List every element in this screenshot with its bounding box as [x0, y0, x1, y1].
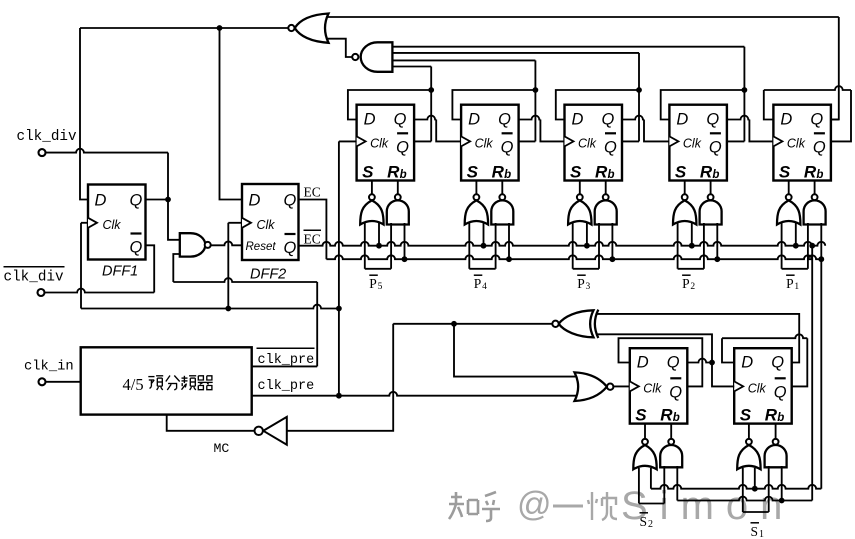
svg-text:b: b: [504, 169, 511, 181]
svg-text:Q: Q: [604, 138, 617, 156]
svg-text:S: S: [740, 406, 752, 425]
wire G3 lower input from clk_pre_bar: [173, 254, 180, 282]
wire R-gate left input to P3 staple: [598, 223, 600, 269]
NAND gate R-gate of FF6: [670, 424, 672, 440]
wire DFF1.Q down to G3 upper input: [168, 200, 180, 240]
svg-text:D: D: [468, 110, 480, 128]
wire R-gate left input to P5 staple: [390, 223, 392, 269]
svg-text:b: b: [673, 412, 680, 424]
wire S1 staple: [743, 511, 769, 513]
wire FF6 S-gate left input to S2 staple: [638, 468, 640, 504]
terminal clk_in: [39, 378, 46, 385]
junctions R-gate right inputs on EC bus: [402, 256, 408, 262]
svg-text:Q: Q: [771, 353, 784, 371]
wire FF5 feedback D=Qbar: [764, 90, 774, 120]
flip-flop FF2 (counter stage 4): [461, 105, 518, 182]
wire FF7 S-gate left input to S1 staple: [742, 468, 744, 512]
svg-text:b: b: [816, 169, 823, 181]
wire S-gate left input to P1 staple: [781, 223, 783, 269]
wire G2 output to G1 lower input: [327, 39, 352, 57]
wire P3 staple: [573, 268, 599, 270]
svg-text:P: P: [474, 276, 482, 291]
bus ECbar return: [677, 497, 812, 501]
svg-text:2: 2: [690, 282, 695, 292]
wire S-gate left input to P2 staple: [677, 223, 679, 269]
terminal clk_div_bar: [38, 289, 45, 296]
wire R-gate right input to EC bus: [508, 223, 510, 259]
wire R-gate left input to P1 staple: [807, 223, 809, 269]
wire FF6.Q down to FF7.Clk: [712, 363, 734, 387]
svg-text:S: S: [751, 524, 759, 539]
wire G2 input from FF2 feedback node: [392, 59, 535, 61]
wire MC input from G4 output net: [287, 324, 393, 431]
flip-flop FF1 (counter stage 5): [357, 105, 415, 182]
wire FF6 R-gate right input starts ECbar return bus: [676, 466, 678, 501]
NOR gate S-gate of FF1: [371, 181, 373, 195]
wire FF5.Q stub to riser: [831, 119, 839, 121]
wire FF3 feedback D=Qbar: [556, 90, 639, 120]
flip-flop FF4 (counter stage 2): [669, 105, 727, 182]
svg-text:Q: Q: [498, 110, 511, 128]
wire MC output to prescaler: [167, 415, 255, 431]
svg-text:Clk: Clk: [748, 382, 767, 396]
svg-text:S: S: [675, 163, 687, 182]
wire G3 output to DFF2.Reset: [211, 241, 242, 245]
svg-text:Q: Q: [706, 110, 719, 128]
svg-text:D: D: [741, 353, 753, 371]
junction FF3 feedback node: [636, 87, 642, 93]
wire FF6.Q stub: [687, 359, 712, 363]
wire FF1.Clk from clk_pre riser: [339, 140, 357, 142]
svg-text:DFF1: DFF1: [102, 264, 138, 280]
terminal clk_div: [39, 149, 46, 156]
junctions S-gate right inputs on ECbar bus: [376, 243, 382, 249]
svg-text:S: S: [570, 163, 582, 182]
wire FF4.Q to FF5.Clk: [727, 116, 750, 120]
inverter MC: [263, 417, 287, 445]
svg-text:R: R: [387, 163, 400, 182]
svg-text:Clk: Clk: [683, 137, 702, 151]
svg-text:Clk: Clk: [257, 218, 276, 232]
wire S-gate left input to P3 staple: [572, 223, 574, 269]
junction FF4 feedback node: [742, 87, 748, 93]
NAND gate G2 (4 inputs, output left): [361, 42, 393, 72]
NOR gate S-gate of FF6: [644, 424, 646, 440]
svg-text:P: P: [369, 276, 377, 291]
svg-text:@: @: [517, 486, 552, 524]
wire S-gate left input to P5 staple: [364, 223, 366, 269]
junction FF2 feedback node: [533, 87, 539, 93]
svg-text:P: P: [577, 276, 585, 291]
junction FF6.Q node: [709, 360, 715, 366]
svg-text:Q: Q: [669, 383, 682, 401]
svg-text:EC: EC: [304, 185, 321, 200]
wire P4 staple: [469, 268, 495, 270]
wire branch down to DFF2.D: [220, 28, 243, 200]
wire FF7 S-gate right input to EC return bus: [754, 468, 756, 489]
svg-text:D: D: [572, 110, 584, 128]
junction ECbar branch to lower section: [809, 243, 815, 249]
wire R-gate left input to P2 staple: [703, 223, 705, 269]
svg-text:S: S: [779, 163, 791, 182]
svg-text:5: 5: [378, 282, 383, 292]
flip-flop DFF1: [88, 185, 146, 260]
svg-text:D: D: [780, 110, 792, 128]
flip-flop FF6 (swallow counter): [630, 348, 688, 425]
wire S-gate right input to ECbar bus: [795, 223, 797, 246]
wire R-gate left input to P4 staple: [495, 223, 497, 269]
svg-text:R: R: [765, 406, 778, 425]
wire G1 output to DFF1.D: [80, 27, 288, 29]
svg-text:Q: Q: [130, 238, 143, 256]
svg-text:R: R: [492, 163, 505, 182]
svg-text:clk_pre: clk_pre: [258, 379, 315, 394]
bus ECbar: [299, 242, 826, 246]
svg-text:4/5: 4/5: [123, 375, 144, 394]
wire FF1 feedback D=Qbar: [348, 90, 431, 120]
svg-text:Clk: Clk: [643, 382, 662, 396]
wire FF7.Q up to G4 top input: [598, 314, 800, 363]
wire FF1.Q to FF2.Clk: [414, 116, 436, 120]
svg-text:2: 2: [648, 519, 653, 530]
svg-text:Clk: Clk: [370, 137, 389, 151]
bus EC return (to FF5 R-gate riser): [651, 485, 821, 489]
wire FF2 feedback D=Qbar: [452, 90, 535, 120]
wire G4 output down to G5 upper input: [454, 324, 578, 377]
4/5 prescaler block: [81, 347, 252, 414]
NAND gate G3 (drives DFF2.Reset): [180, 233, 206, 256]
svg-text:Reset: Reset: [246, 241, 277, 253]
wire clk_div to DFF1.Q node: [45, 149, 168, 153]
watermark zhihu @yichen Simon: [449, 492, 500, 521]
wire R-gate right input to EC bus: [716, 223, 718, 259]
junction G4 output branch: [451, 321, 457, 327]
wire FF6 S-gate right input starts EC return bus: [650, 468, 652, 489]
clk_pre bus line: [81, 305, 339, 309]
NOR gate S-gate of FF7: [748, 424, 750, 440]
svg-text:D: D: [249, 192, 261, 210]
wire clk_pre_bar output riser: [252, 365, 318, 367]
svg-text:DFF2: DFF2: [250, 267, 286, 283]
svg-text:b: b: [400, 169, 407, 181]
svg-text:clk_in: clk_in: [24, 359, 74, 375]
wire R-gate right input to EC bus: [611, 223, 613, 259]
flip-flop DFF2: [242, 184, 299, 260]
svg-text:Q: Q: [396, 138, 409, 156]
svg-text:S: S: [635, 406, 647, 425]
svg-text:P: P: [786, 276, 794, 291]
svg-text:Q: Q: [813, 138, 826, 156]
flip-flop FF5 (counter stage 1): [773, 105, 831, 182]
junction FF1 feedback node: [428, 87, 434, 93]
NOR gate G1 (output left, top of schematic): [295, 14, 329, 43]
wire G2 input from FF4 feedback node: [392, 46, 744, 48]
svg-text:D: D: [95, 192, 107, 210]
svg-text:S: S: [362, 163, 374, 182]
NAND gate R-gate of FF7: [775, 424, 777, 440]
wire FF4 feedback D=Qbar: [661, 90, 745, 120]
wire G2 input from FF1 feedback node: [392, 66, 431, 68]
NOR gate S-gate of FF3: [579, 181, 581, 195]
NAND gate R-gate of FF1: [397, 181, 399, 195]
junction clk_pre bus / FF1.Clk riser: [336, 306, 342, 312]
wire G1 top input from FF5.Q: [327, 16, 839, 18]
wire P1 staple: [782, 268, 808, 270]
svg-text:Q: Q: [501, 138, 514, 156]
wire P2 staple: [678, 268, 704, 270]
NAND gate R-gate of FF3: [605, 181, 607, 195]
NOR gate G5 (drives FF6.Clk): [575, 372, 607, 401]
wire G4 output net: [393, 323, 552, 325]
wire clk_in to prescaler: [45, 381, 80, 383]
svg-text:4: 4: [482, 282, 487, 292]
junction DFF2.Clk on clk_pre bus: [225, 306, 231, 312]
wire S-gate right input to ECbar bus: [691, 223, 693, 246]
wire S-gate right input to ECbar bus: [483, 223, 485, 246]
wire ECbar down to R-input return bus: [811, 246, 813, 501]
svg-text:Q: Q: [602, 110, 615, 128]
wire R-gate right input to EC bus: [404, 223, 406, 259]
svg-text:R: R: [700, 163, 713, 182]
wire DFF2.Q (EC) down to EC bus: [299, 200, 327, 260]
wire DFF1.Q stub: [146, 199, 169, 201]
junction DFF1.Q node: [165, 197, 171, 203]
svg-text:clk_div: clk_div: [17, 129, 77, 145]
wire S2 staple: [639, 503, 664, 505]
svg-text:Q: Q: [130, 192, 143, 210]
bus EC: [326, 255, 821, 259]
NAND gate R-gate of FF2: [501, 181, 503, 195]
svg-text:Clk: Clk: [787, 137, 806, 151]
svg-text:S: S: [640, 514, 648, 529]
wire DFF2.Clk from clk_pre bus: [228, 222, 242, 224]
svg-text:D: D: [364, 110, 376, 128]
svg-text:b: b: [608, 169, 615, 181]
svg-text:Q: Q: [709, 138, 722, 156]
wire S-gate left input to P4 staple: [468, 223, 470, 269]
wire S-gate right input to ECbar bus: [378, 223, 380, 246]
flip-flop FF3 (counter stage 3): [565, 105, 623, 182]
NOR gate S-gate of FF2: [475, 181, 477, 195]
svg-text:P: P: [682, 276, 690, 291]
wire FF7 feedback D=Qbar: [722, 338, 734, 362]
svg-text:D: D: [676, 110, 688, 128]
junction G1 output branch: [217, 25, 223, 31]
svg-text:1: 1: [759, 529, 764, 539]
wire G5 output to FF6.Clk: [613, 385, 629, 387]
svg-text:EC: EC: [304, 232, 321, 247]
svg-text:clk_div: clk_div: [4, 270, 64, 286]
svg-text:Clk: Clk: [578, 137, 597, 151]
svg-text:b: b: [712, 169, 719, 181]
wire FF6 R-gate left input to S2 staple: [663, 466, 665, 504]
wire clk_pre output to NOR G5 input: [252, 392, 578, 396]
wire FF7 R-gate left input to S1 staple: [768, 466, 770, 512]
svg-text:Clk: Clk: [103, 218, 122, 232]
svg-text:S: S: [467, 163, 479, 182]
junction FF7 R-gate on ECbar return bus: [779, 498, 785, 504]
wire FF3.Q to FF4.Clk: [622, 116, 644, 120]
svg-text:Q: Q: [810, 110, 823, 128]
wire P5 staple: [365, 268, 391, 270]
svg-text:3: 3: [586, 282, 591, 292]
svg-text:Q: Q: [667, 353, 680, 371]
NAND gate R-gate of FF5: [814, 181, 816, 195]
svg-text:b: b: [777, 412, 784, 424]
NOR gate S-gate of FF5: [788, 181, 790, 195]
NOR gate S-gate of FF4: [684, 181, 686, 195]
wire G2 input from FF3 feedback node: [392, 52, 639, 54]
wire FF7 R-gate right input to ECbar return bus: [781, 466, 783, 501]
svg-text:R: R: [660, 406, 673, 425]
wire DFF1.Clk from clk_pre bus: [81, 222, 88, 224]
junction clk_pre line / FF1.Clk riser: [336, 393, 342, 399]
svg-text:MC: MC: [214, 441, 230, 456]
svg-text:Q: Q: [774, 383, 787, 401]
svg-text:Q: Q: [394, 110, 407, 128]
svg-text:1: 1: [794, 282, 799, 292]
wire S-gate right input to ECbar bus: [586, 223, 588, 246]
svg-text:Clk: Clk: [475, 137, 494, 151]
wire R-gate right input to EC bus: [820, 223, 822, 489]
svg-text:D: D: [637, 353, 649, 371]
flip-flop FF7 (swallow counter): [734, 348, 792, 425]
junction FF7 S-gate on EC return bus: [752, 486, 758, 492]
wire FF2.Q to FF3.Clk: [519, 116, 541, 120]
NAND gate R-gate of FF4: [710, 181, 712, 195]
wire clk_div_bar to DFF1.Qbar: [44, 289, 154, 293]
svg-text:R: R: [595, 163, 608, 182]
svg-text:Q: Q: [284, 192, 297, 210]
svg-text:R: R: [804, 163, 817, 182]
svg-text:Q: Q: [284, 239, 297, 257]
XNOR gate G4 (output left): [559, 310, 594, 337]
wire FF6.Q up to G4 lower input: [598, 334, 713, 362]
wire FF6 feedback D=Qbar: [619, 338, 703, 386]
